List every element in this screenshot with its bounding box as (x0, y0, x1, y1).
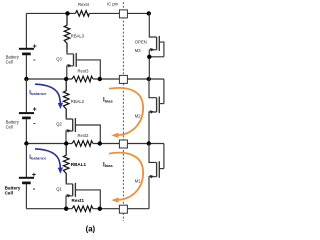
IC pin 1 (119, 10, 127, 18)
wire rail 1 to pin 1 (89, 12, 119, 14)
transistor M3 (149, 13, 164, 79)
current arrow Ibalance lower (35, 149, 60, 169)
node M3 source (147, 55, 151, 59)
svg-text:+: + (33, 107, 37, 114)
transistor M1 (149, 144, 164, 209)
wire rail 4 (26, 208, 72, 210)
svg-text:Rext2: Rext2 (78, 133, 90, 138)
transistor M2 (149, 79, 164, 144)
wire rail 4 to pin 4 (93, 208, 119, 210)
svg-text:(a): (a) (86, 225, 96, 234)
svg-text:Cell: Cell (5, 190, 13, 195)
svg-text:OPEN: OPEN (135, 39, 147, 44)
resistor Rext4 (75, 11, 89, 17)
node rail3 left (64, 141, 68, 145)
svg-text:M3: M3 (135, 48, 141, 53)
wire pin3 to M1 node (127, 143, 163, 145)
svg-text:Ibias: Ibias (103, 162, 113, 168)
svg-text:Rext3: Rext3 (78, 69, 90, 74)
node rail3 internal (147, 141, 151, 145)
node rail2 internal (147, 77, 151, 81)
wire pin4 to M1 source (127, 208, 149, 210)
svg-text:Ibalance: Ibalance (29, 90, 47, 96)
node M3 drain (147, 11, 151, 15)
svg-text:RBAL3: RBAL3 (71, 33, 85, 38)
node rail3 battery tap (24, 141, 28, 145)
resistor Rext3 (72, 76, 93, 82)
resistor Rext1 (72, 206, 93, 212)
svg-text:RBAL1: RBAL1 (71, 162, 87, 167)
svg-text:Q1: Q1 (56, 186, 62, 191)
node rail3 right (98, 141, 102, 145)
svg-text:RBAL2: RBAL2 (71, 99, 85, 104)
resistor RBAL3 (64, 13, 70, 53)
resistor RBAL1 (63, 144, 69, 184)
wire rail 2 to pin 2 (93, 78, 119, 80)
wire rail 3 to pin 3 (93, 143, 119, 145)
node rail2 left (64, 77, 68, 81)
svg-text:Q2: Q2 (56, 122, 62, 127)
node rail4 left (64, 207, 68, 211)
svg-text:Cell: Cell (6, 59, 13, 64)
node rail2 battery tap (24, 77, 28, 81)
current arrow Ibias loop M2 (109, 88, 143, 135)
current arrow Ibias loop M1 (109, 153, 143, 200)
battery cell 3 (19, 13, 34, 79)
resistor RBAL2 (63, 79, 69, 118)
svg-text:+: + (33, 44, 37, 51)
IC pin 3 (119, 140, 127, 148)
resistor Rext2 (72, 141, 93, 147)
transistor Q1 (66, 183, 100, 209)
svg-text:M1: M1 (135, 179, 141, 184)
svg-text:+: + (32, 170, 37, 179)
transistor Q3 (67, 53, 101, 79)
wire pin2 to M2 node (127, 78, 163, 80)
wire pin1 to internal node (127, 12, 148, 14)
transistor Q2 (66, 118, 100, 144)
svg-text:Ibias: Ibias (103, 98, 113, 104)
svg-text:Rext4: Rext4 (78, 2, 90, 7)
node rail2 right (98, 77, 102, 81)
svg-text:Rext1: Rext1 (72, 198, 85, 203)
svg-text:Ibalance: Ibalance (29, 155, 47, 161)
svg-text:Q3: Q3 (56, 56, 62, 61)
battery cell 2 (19, 79, 34, 144)
current arrow Ibalance upper (35, 84, 60, 104)
battery cell 1 (19, 144, 34, 209)
node rail4 right (98, 207, 102, 211)
svg-text:M2: M2 (135, 114, 141, 119)
wire rail 2 (26, 78, 72, 80)
wire rail 3 (26, 143, 72, 145)
wire rail 1 left (26, 12, 75, 14)
svg-text:Cell: Cell (6, 124, 13, 129)
node rail1 junction (65, 11, 69, 15)
svg-text:IC pin: IC pin (107, 2, 119, 7)
IC pin 4 (119, 205, 127, 213)
IC boundary dashed line (122, 2, 124, 221)
IC pin 2 (119, 75, 127, 83)
